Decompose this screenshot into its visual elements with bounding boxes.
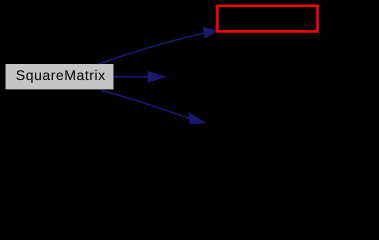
node SquareMatrix (grey box): [6, 64, 114, 89]
arrowhead of edge to red node: [203, 28, 217, 39]
label SquareMatrix: [16, 70, 105, 83]
edge SquareMatrix -> hidden bottom node (wire): [101, 90, 189, 118]
edge SquareMatrix -> red node (wire): [98, 33, 204, 64]
arrowhead of middle edge: [148, 71, 165, 82]
node highlighted (red-bordered box, black fill): [217, 6, 317, 32]
edge SquareMatrix -> hidden middle node (wire): [114, 76, 149, 78]
arrowhead of bottom edge: [189, 113, 205, 124]
